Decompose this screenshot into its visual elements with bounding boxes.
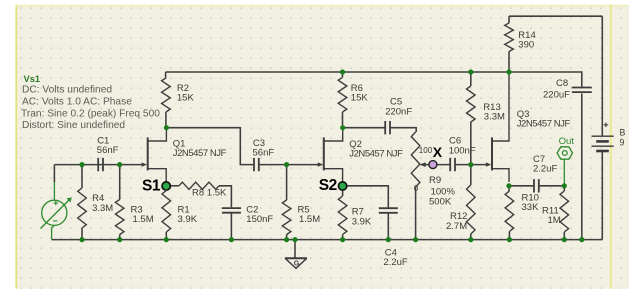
wire Q3 source node to C7 <box>509 185 533 187</box>
junction R1 bottom <box>164 237 169 242</box>
wire gate node to R12 <box>470 165 472 185</box>
wire R9 bottom lead <box>415 187 417 240</box>
wire R9 wiper to C6 <box>425 164 450 166</box>
node S2 <box>338 181 348 191</box>
wire R6 bottom to Q2 drain node <box>342 112 344 128</box>
junction Q2 drain node <box>340 125 345 130</box>
wire battery top lead <box>601 16 603 135</box>
junction R9 bottom <box>413 237 418 242</box>
resistor R1 <box>162 191 171 233</box>
junction R12 bottom <box>468 237 473 242</box>
node X <box>429 161 437 169</box>
wire Q2 drain node to C5 <box>343 127 385 129</box>
resistor R10 <box>505 191 514 232</box>
svg-text:C8: C8 <box>556 78 568 89</box>
wire Q3 source node to R10 <box>508 186 510 191</box>
svg-text:3.3M: 3.3M <box>92 203 113 214</box>
source Vs1 symbol <box>41 182 72 239</box>
wire R11 bottom lead <box>563 232 565 240</box>
wire R8 to C2 top <box>219 186 231 208</box>
svg-text:1M: 1M <box>548 215 561 226</box>
svg-text:J2N5457 NJF: J2N5457 NJF <box>173 148 227 159</box>
svg-text:2.2uF: 2.2uF <box>533 164 557 175</box>
svg-text:B: B <box>620 127 626 137</box>
wire S2 to C4 top <box>343 186 389 208</box>
capacitor C3 <box>254 158 259 171</box>
resistor R5 <box>282 200 291 235</box>
svg-text:9: 9 <box>620 137 625 147</box>
junction R13 top on supply rail <box>468 69 473 74</box>
wire bottom ground rail <box>52 239 603 241</box>
junction ground stem <box>292 237 297 242</box>
junction C8 bottom <box>579 237 584 242</box>
svg-text:100: 100 <box>419 146 433 155</box>
transistor Q2 <box>324 128 343 182</box>
wire Q1 drain node to C3 <box>166 128 253 165</box>
resistor R7 <box>338 196 347 235</box>
svg-text:Distort: Sine undefined: Distort: Sine undefined <box>22 120 125 131</box>
wire output node to R11 <box>563 186 565 191</box>
resistor R3 <box>115 200 124 235</box>
transistor Q1 <box>148 128 167 182</box>
svg-text:3.3M: 3.3M <box>484 111 505 122</box>
capacitor C8 <box>572 88 592 93</box>
svg-text:150nF: 150nF <box>246 214 273 225</box>
svg-text:2.7M: 2.7M <box>446 221 467 232</box>
junction R6 top on supply rail <box>340 69 345 74</box>
junction R7 bottom <box>340 237 345 242</box>
svg-text:100nF: 100nF <box>449 145 476 156</box>
svg-text:S2: S2 <box>319 177 337 194</box>
wire source top lead <box>53 165 55 182</box>
junction R10 bottom <box>507 237 512 242</box>
resistor R14 <box>505 23 514 52</box>
svg-text:3.9K: 3.9K <box>178 214 198 225</box>
resistor R2 <box>162 78 171 112</box>
resistor R12 <box>467 185 476 234</box>
svg-text:Tran: Sine 0.2 (peak) Freq 5: Tran: Sine 0.2 (peak) Freq 500 <box>21 109 160 120</box>
wire C7 to output node <box>539 185 564 187</box>
svg-text:500K: 500K <box>429 197 452 208</box>
wire C8 branch from supply node <box>509 72 582 87</box>
wire C3 to Q2 gate <box>260 164 323 166</box>
capacitor C6 <box>450 158 455 171</box>
svg-text:33K: 33K <box>522 202 540 213</box>
svg-text:3.9K: 3.9K <box>352 217 372 228</box>
resistor R6 <box>338 77 347 112</box>
svg-text:X: X <box>433 144 443 160</box>
wire B+ top from R14 to battery <box>509 15 602 17</box>
svg-text:DC: Volts undefined: DC: Volts undefined <box>22 85 112 96</box>
wire R12 bottom lead <box>470 234 472 240</box>
svg-text:56nF: 56nF <box>253 148 275 159</box>
svg-text:G: G <box>294 259 300 268</box>
svg-text:390: 390 <box>518 40 534 51</box>
resistor R8 <box>179 182 219 189</box>
junction R4 bottom <box>79 237 84 242</box>
wire R14 bottom to supply rail <box>508 52 510 73</box>
junction C3 output node <box>284 162 289 167</box>
junction R3 bottom <box>117 237 122 242</box>
junction R4 top <box>79 162 84 167</box>
capacitor C7 <box>534 179 539 192</box>
svg-text:220nF: 220nF <box>385 107 412 118</box>
svg-text:0: 0 <box>414 184 419 193</box>
wire R2 bottom to drain node Q1 <box>165 112 167 128</box>
wire R10 bottom lead <box>508 232 510 240</box>
junction Q1 drain node <box>164 125 169 130</box>
capacitor C1 <box>98 158 103 171</box>
output terminal Out <box>557 147 572 186</box>
junction R3 top <box>117 162 122 167</box>
svg-text:Vs1: Vs1 <box>24 74 41 84</box>
svg-text:R9: R9 <box>429 175 441 186</box>
svg-text:R8 1.5K: R8 1.5K <box>192 188 227 199</box>
wire C2 bottom to ground rail <box>230 213 232 240</box>
junction Q3 source node <box>506 183 511 188</box>
svg-text:1.5M: 1.5M <box>133 214 154 225</box>
wire top supply rail <box>166 71 509 73</box>
wire battery bottom lead <box>601 152 603 240</box>
junction R11 bottom <box>562 237 567 242</box>
wire C8 bottom to ground rail <box>581 94 583 240</box>
wire R2 top corner <box>165 72 167 78</box>
wire R13 top lead <box>470 72 472 86</box>
wire C4 bottom to ground rail <box>387 213 389 240</box>
svg-text:220uF: 220uF <box>543 90 570 101</box>
svg-text:56nF: 56nF <box>97 145 119 156</box>
svg-text:1.5M: 1.5M <box>299 214 320 225</box>
resistor R4 <box>78 188 87 228</box>
wire C5 to R9 top <box>391 128 417 132</box>
wire ground stem <box>294 240 296 258</box>
resistor R11 <box>560 191 569 232</box>
transistor Q3 <box>492 72 509 182</box>
svg-text:2.2uF: 2.2uF <box>383 257 407 268</box>
wire S1 to R8 <box>166 185 179 187</box>
svg-text:J2N5457 NJF: J2N5457 NJF <box>349 149 403 160</box>
svg-text:15K: 15K <box>351 93 369 104</box>
resistor R13 <box>467 86 476 122</box>
svg-text:AC: Volts 1.0 AC: Phase: AC: Volts 1.0 AC: Phase <box>22 97 132 108</box>
node S1 <box>161 181 171 191</box>
wire input node to C1 and Q1 gate <box>54 164 143 166</box>
junction R13 R12 gate node <box>468 162 473 167</box>
junction C4 bottom <box>386 237 391 242</box>
svg-text:Out: Out <box>559 136 575 147</box>
capacitor C5 <box>385 121 390 134</box>
svg-text:J2N5457 NJF: J2N5457 NJF <box>517 119 571 130</box>
wire R14 top lead <box>508 16 510 23</box>
junction R5 bottom <box>284 237 289 242</box>
wire R13 bottom to gate node <box>470 122 472 165</box>
junction C2 bottom <box>229 237 234 242</box>
svg-text:15K: 15K <box>177 93 195 104</box>
junction output node <box>562 183 567 188</box>
junction R14 bottom supply node <box>506 69 511 74</box>
potentiometer R9 <box>411 132 420 187</box>
svg-text:S1: S1 <box>142 178 161 195</box>
wire R6 top lead <box>342 72 344 77</box>
wire C6 to node and Q3 gate <box>456 164 490 166</box>
ground <box>285 258 307 268</box>
capacitor C2 <box>222 208 241 213</box>
capacitor C4 <box>379 208 398 213</box>
battery B 9V <box>592 123 614 152</box>
